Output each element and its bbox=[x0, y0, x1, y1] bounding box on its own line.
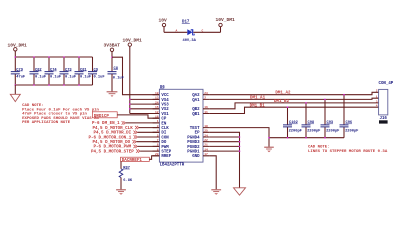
svg-text:P4,5 D_MOTOR_CLK: P4,5 D_MOTOR_CLK bbox=[93, 127, 134, 131]
wire bbox=[120, 161, 122, 169]
svg-text:C96: C96 bbox=[346, 121, 353, 125]
svg-text:P-6 D_MOTOR_CON_1: P-6 D_MOTOR_CON_1 bbox=[89, 136, 132, 140]
svg-text:VS1: VS1 bbox=[161, 113, 169, 117]
svg-text:CON_4P: CON_4P bbox=[379, 82, 394, 86]
svg-text:QB1: QB1 bbox=[192, 113, 200, 117]
note left bbox=[22, 104, 99, 125]
connector pin numbers bbox=[376, 90, 378, 108]
capacitor C79 bbox=[11, 57, 25, 85]
svg-text:2: 2 bbox=[376, 90, 378, 93]
svg-text:DM1_B2: DM1_B2 bbox=[274, 100, 290, 104]
svg-text:QA2: QA2 bbox=[192, 94, 200, 98]
svg-text:2200pF: 2200pF bbox=[307, 130, 320, 134]
svg-text:7: 7 bbox=[157, 139, 159, 142]
svg-text:QA1: QA1 bbox=[192, 99, 200, 103]
svg-text:3: 3 bbox=[376, 100, 378, 103]
svg-text:0.1uF: 0.1uF bbox=[80, 76, 91, 80]
right pin stubs bbox=[203, 95, 210, 156]
svg-text:C82: C82 bbox=[35, 68, 42, 72]
op-amp U6 (stepper driver IC) bbox=[159, 89, 203, 162]
wire cathode bbox=[193, 31, 220, 33]
svg-text:6.8K: 6.8K bbox=[123, 179, 133, 183]
capacitor C102 bbox=[283, 106, 302, 137]
wire branch to VCC pin bbox=[112, 57, 159, 94]
capacitor C82 bbox=[30, 57, 47, 85]
wire DM1_A2 bbox=[210, 92, 379, 94]
wire anode bbox=[164, 31, 187, 33]
svg-text:VCC: VCC bbox=[161, 94, 169, 98]
svg-text:DO: DO bbox=[161, 141, 166, 145]
wire VS1 bbox=[130, 113, 160, 115]
svg-text:PGND3: PGND3 bbox=[187, 141, 200, 145]
svg-text:U6: U6 bbox=[160, 86, 165, 90]
svg-text:12: 12 bbox=[155, 111, 159, 114]
svg-text:24: 24 bbox=[155, 101, 159, 104]
wire VS column bbox=[129, 46, 131, 113]
capacitor C81 bbox=[75, 57, 92, 85]
svg-text:C79: C79 bbox=[16, 68, 23, 72]
svg-text:C93: C93 bbox=[327, 121, 334, 125]
svg-text:5: 5 bbox=[157, 134, 159, 137]
svg-text:EN: EN bbox=[161, 122, 166, 126]
svg-text:10V_DM1: 10V_DM1 bbox=[216, 17, 236, 23]
svg-text:11: 11 bbox=[204, 111, 208, 114]
right pin numbers bbox=[204, 92, 208, 156]
capacitor C98 bbox=[302, 102, 321, 138]
svg-text:C74: C74 bbox=[50, 68, 57, 72]
wire RREF bbox=[149, 156, 159, 160]
svg-text:10V_DM1: 10V_DM1 bbox=[123, 37, 143, 43]
capacitor C93 bbox=[321, 99, 340, 138]
svg-text:17: 17 bbox=[204, 153, 208, 156]
capacitor C74 bbox=[45, 57, 62, 85]
wire bbox=[163, 27, 165, 33]
svg-text:Place Four 0.1uF For each VS p: Place Four 0.1uF For each VS pin bbox=[22, 107, 99, 112]
svg-text:16: 16 bbox=[204, 106, 208, 109]
wire CP bbox=[117, 115, 159, 118]
svg-text:DI: DI bbox=[161, 132, 166, 136]
svg-text:10V: 10V bbox=[159, 18, 168, 24]
svg-text:CP: CP bbox=[161, 118, 166, 122]
svg-text:4: 4 bbox=[376, 105, 378, 108]
node 3V3BAT branch bbox=[111, 56, 113, 58]
capacitor C73 bbox=[60, 57, 77, 85]
svg-text:PWM: PWM bbox=[161, 146, 169, 150]
wire VS4 bbox=[130, 98, 160, 100]
wire EP/PGND bus bbox=[210, 132, 240, 187]
svg-text:DM1_B1: DM1_B1 bbox=[250, 104, 266, 108]
connector CON_4P bbox=[379, 89, 388, 115]
svg-text:14: 14 bbox=[204, 148, 208, 151]
net alias box DMD1CP bbox=[92, 112, 117, 118]
note right bbox=[308, 146, 388, 154]
wire VS2 bbox=[130, 108, 160, 110]
left pin numbers bbox=[155, 92, 159, 156]
ground open triangle bbox=[10, 94, 20, 101]
off-page signal D_MOTOR_DO bbox=[93, 140, 160, 145]
svg-text:STEP: STEP bbox=[161, 151, 171, 155]
svg-text:PER APPLICATION NOTE: PER APPLICATION NOTE bbox=[22, 121, 71, 125]
svg-text:P-6 DM_EN_1: P-6 DM_EN_1 bbox=[92, 122, 120, 126]
svg-text:0.1uF: 0.1uF bbox=[94, 76, 105, 80]
svg-text:2: 2 bbox=[204, 97, 206, 100]
power terminal 10V_DM1 top right bbox=[219, 23, 222, 26]
svg-text:QB2: QB2 bbox=[192, 108, 200, 112]
wire DM1_A1 bbox=[210, 98, 379, 99]
wire bbox=[220, 27, 222, 33]
svg-text:20: 20 bbox=[155, 153, 159, 156]
svg-text:DM1_A2: DM1_A2 bbox=[275, 91, 291, 95]
svg-text:8: 8 bbox=[157, 144, 159, 147]
svg-text:25: 25 bbox=[204, 130, 208, 133]
svg-text:DM1_A1: DM1_A1 bbox=[250, 97, 266, 101]
wire TEST to ground bbox=[210, 128, 269, 147]
wire snubber rail bbox=[269, 137, 344, 139]
svg-text:47uF Place closer to VS pin: 47uF Place closer to VS pin bbox=[22, 112, 87, 117]
svg-text:18: 18 bbox=[204, 125, 208, 128]
off-page signal D_MOTOR_CLK bbox=[93, 126, 160, 131]
right pin names bbox=[187, 94, 200, 159]
svg-text:1: 1 bbox=[376, 96, 378, 99]
svg-text:2200pF: 2200pF bbox=[326, 130, 339, 134]
ground bars bbox=[211, 190, 221, 195]
svg-text:22: 22 bbox=[204, 139, 208, 142]
svg-text:CON: CON bbox=[161, 136, 169, 140]
wire bbox=[14, 51, 16, 57]
svg-text:23: 23 bbox=[204, 92, 208, 95]
svg-text:47uF: 47uF bbox=[16, 76, 25, 80]
wire DM1_B2 bbox=[210, 103, 379, 109]
svg-text:C81: C81 bbox=[80, 68, 87, 72]
svg-text:21: 21 bbox=[204, 144, 208, 147]
svg-text:24: 24 bbox=[204, 134, 208, 137]
capacitor C96 bbox=[340, 94, 359, 138]
svg-text:10V_DM1: 10V_DM1 bbox=[8, 42, 28, 48]
wire bbox=[120, 178, 122, 190]
wire to ground bbox=[14, 85, 16, 94]
left pin stubs bbox=[153, 95, 160, 156]
svg-text:VS3: VS3 bbox=[161, 104, 169, 108]
svg-text:C98: C98 bbox=[308, 121, 315, 125]
svg-text:4: 4 bbox=[157, 130, 159, 133]
svg-text:C8: C8 bbox=[114, 67, 119, 71]
wire VS3 bbox=[130, 103, 160, 105]
svg-text:CLK: CLK bbox=[161, 127, 169, 131]
ground open triangle bbox=[234, 188, 246, 195]
ground bars bbox=[107, 92, 118, 97]
off-page signal DM_EN_1 bbox=[92, 121, 159, 126]
svg-text:0.1uF: 0.1uF bbox=[50, 76, 61, 80]
svg-text:0.1uF: 0.1uF bbox=[113, 77, 124, 81]
svg-text:A: A bbox=[176, 29, 178, 32]
svg-text:DACRREF1: DACRREF1 bbox=[122, 159, 143, 163]
off-page signal D_MOTOR_STEP bbox=[91, 149, 159, 154]
svg-text:40V,3A: 40V,3A bbox=[183, 39, 197, 43]
svg-text:15: 15 bbox=[155, 106, 159, 109]
svg-text:P-6 D_MOTOR_PWM: P-6 D_MOTOR_PWM bbox=[94, 146, 132, 150]
svg-text:PGND4: PGND4 bbox=[187, 136, 200, 140]
capacitor C8 bbox=[108, 67, 124, 92]
svg-text:RREF: RREF bbox=[161, 155, 171, 159]
diode D17 bbox=[182, 21, 197, 44]
wire bottom rail bbox=[15, 84, 92, 86]
svg-text:LINES TO STEPPER MOTOR ROUTE 0: LINES TO STEPPER MOTOR ROUTE 0.3A bbox=[308, 150, 388, 154]
resistor R87 bbox=[119, 166, 133, 183]
svg-text:VS4: VS4 bbox=[161, 99, 169, 103]
svg-text:3V3BAT: 3V3BAT bbox=[104, 42, 121, 48]
svg-text:P4,5 D_MOTOR_STEP: P4,5 D_MOTOR_STEP bbox=[91, 150, 134, 154]
net alias box DACRREF1 bbox=[121, 157, 150, 161]
svg-text:C73: C73 bbox=[65, 68, 72, 72]
svg-text:16: 16 bbox=[155, 116, 159, 119]
svg-text:2200pF: 2200pF bbox=[289, 130, 302, 134]
svg-text:19: 19 bbox=[155, 92, 159, 95]
junction dots cap rails bbox=[15, 56, 17, 58]
svg-text:0.1uF: 0.1uF bbox=[65, 76, 76, 80]
svg-text:C9: C9 bbox=[94, 68, 98, 72]
svg-text:C102: C102 bbox=[289, 121, 298, 125]
svg-text:TEST: TEST bbox=[190, 127, 200, 131]
capacitor C9 bbox=[88, 57, 105, 85]
ground bars bbox=[116, 190, 126, 195]
wire DM1_B1 bbox=[210, 107, 379, 113]
off-page signal D_MOTOR_DI bbox=[94, 131, 160, 136]
svg-text:GND: GND bbox=[192, 155, 200, 159]
off-page signal D_MOTOR_PWM bbox=[94, 145, 160, 150]
svg-text:6: 6 bbox=[157, 148, 159, 151]
wire GND to ground bbox=[210, 156, 216, 190]
svg-text:2200pF: 2200pF bbox=[345, 130, 358, 134]
svg-text:PGND1: PGND1 bbox=[187, 151, 200, 155]
svg-text:PGND2: PGND2 bbox=[187, 146, 200, 150]
ground bars bbox=[264, 147, 274, 152]
svg-text:P4,5 D_MOTOR_DI: P4,5 D_MOTOR_DI bbox=[94, 132, 132, 136]
svg-text:0.1uF: 0.1uF bbox=[35, 76, 46, 80]
svg-text:LB42A2PTTR: LB42A2PTTR bbox=[160, 164, 185, 168]
svg-text:1: 1 bbox=[157, 120, 159, 123]
svg-text:3: 3 bbox=[157, 125, 159, 128]
left pin names bbox=[161, 94, 171, 159]
svg-text:13: 13 bbox=[155, 97, 159, 100]
svg-text:R87: R87 bbox=[123, 166, 130, 170]
svg-text:VS2: VS2 bbox=[161, 108, 169, 112]
svg-text:P4,5 D_MOTOR_DO: P4,5 D_MOTOR_DO bbox=[93, 141, 131, 145]
off-page signal D_MOTOR_CON_1 bbox=[89, 135, 160, 140]
wire top rail bbox=[15, 56, 92, 58]
wire bbox=[111, 52, 113, 72]
svg-text:EP: EP bbox=[195, 132, 200, 136]
svg-text:D17: D17 bbox=[182, 21, 190, 25]
